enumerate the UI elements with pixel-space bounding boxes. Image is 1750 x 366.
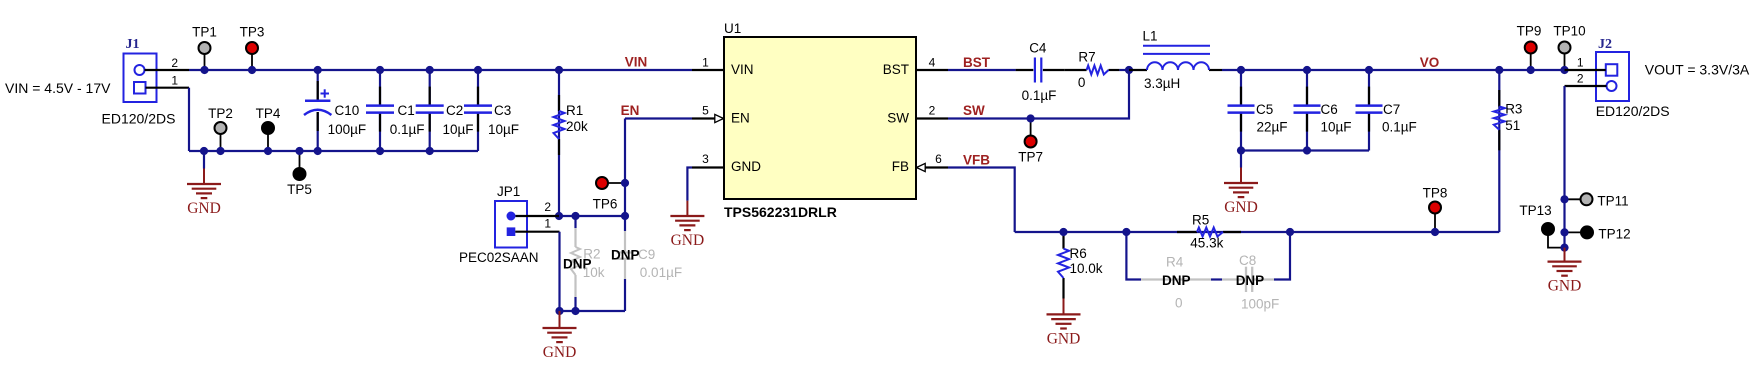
junction C5 bottom: [1237, 146, 1245, 154]
svg-text:VFB: VFB: [963, 153, 990, 168]
svg-text:10µF: 10µF: [443, 122, 474, 137]
svg-text:TP2: TP2: [208, 106, 233, 121]
wire output caps ground row: [1241, 149, 1369, 151]
svg-text:C1: C1: [398, 103, 415, 118]
wire EN ground row: [559, 310, 625, 312]
junction TP9: [1527, 66, 1535, 74]
svg-text:VIN = 4.5V - 17V: VIN = 4.5V - 17V: [5, 80, 111, 96]
junction TP13: [1560, 244, 1568, 252]
svg-text:0: 0: [1175, 296, 1183, 311]
testpoint TP6: [593, 177, 625, 212]
wire DNP branch middle: [1211, 278, 1222, 280]
svg-text:R4: R4: [1166, 255, 1184, 270]
svg-text:4: 4: [929, 56, 936, 70]
svg-text:C5: C5: [1256, 102, 1273, 117]
testpoint TP5: [287, 151, 312, 197]
svg-text:BST: BST: [963, 55, 991, 70]
pin 3 GND: [692, 152, 724, 168]
svg-text:SW: SW: [887, 111, 909, 126]
svg-text:GND: GND: [1548, 278, 1582, 295]
svg-text:C3: C3: [494, 103, 511, 118]
ground output caps: [1224, 151, 1258, 217]
svg-text:GND: GND: [1224, 199, 1258, 216]
svg-text:EN: EN: [731, 111, 750, 126]
svg-text:DNP: DNP: [1162, 273, 1191, 288]
svg-text:JP1: JP1: [497, 184, 520, 199]
resistor R2 (DNP): [563, 216, 605, 311]
svg-text:ED120/2DS: ED120/2DS: [1596, 103, 1670, 119]
capacitor C1: [366, 70, 424, 151]
capacitor C3: [464, 70, 519, 151]
junction C5 top: [1237, 66, 1245, 74]
testpoint TP10: [1553, 24, 1585, 71]
junction C3 top: [474, 66, 482, 74]
capacitor C2: [416, 70, 474, 151]
junction C9 top: [621, 212, 629, 220]
svg-text:0.1µF: 0.1µF: [1022, 88, 1057, 103]
svg-text:VIN: VIN: [731, 62, 754, 77]
junction C1 bottom: [376, 147, 384, 155]
svg-text:10µF: 10µF: [488, 122, 519, 137]
resistor R4 (DNP): [1141, 255, 1211, 311]
svg-text:J1: J1: [126, 37, 140, 52]
capacitor C8 (DNP): [1222, 253, 1279, 312]
svg-text:TPS562231DRLR: TPS562231DRLR: [724, 204, 837, 220]
svg-text:100pF: 100pF: [1241, 297, 1279, 312]
svg-text:R6: R6: [1070, 246, 1087, 261]
svg-text:2: 2: [544, 200, 551, 214]
svg-text:PEC02SAAN: PEC02SAAN: [459, 250, 539, 265]
resistor R3: [1494, 70, 1523, 232]
svg-text:VO: VO: [1420, 55, 1440, 70]
op-amp U1 TPS562231DRLR body: [724, 21, 916, 220]
svg-text:VIN: VIN: [625, 55, 648, 70]
svg-text:GND: GND: [671, 232, 705, 249]
svg-text:TP4: TP4: [256, 106, 281, 121]
junction C2 top: [426, 66, 434, 74]
testpoint TP12: [1565, 226, 1631, 241]
wire VO rail: [1222, 69, 1565, 71]
wire VIN top rail: [189, 69, 692, 71]
testpoint TP9: [1517, 24, 1542, 71]
wire EN vertical: [624, 119, 626, 217]
svg-text:51: 51: [1505, 118, 1520, 133]
svg-text:C2: C2: [446, 103, 463, 118]
capacitor C10: [304, 70, 366, 151]
svg-text:10µF: 10µF: [1321, 120, 1352, 135]
svg-text:TP12: TP12: [1598, 227, 1630, 242]
junction C6 bottom: [1303, 146, 1311, 154]
svg-text:VOUT = 3.3V/3A: VOUT = 3.3V/3A: [1645, 62, 1750, 78]
svg-text:TP3: TP3: [240, 25, 265, 40]
pin 6 FB: [916, 152, 948, 172]
junction R5 left: [1122, 228, 1130, 236]
wire U1 GND: [687, 168, 692, 201]
ground EN divider: [559, 311, 561, 328]
wire JP1 pin1 to ground row: [558, 232, 560, 311]
testpoint TP7: [1018, 119, 1043, 165]
svg-text:C10: C10: [335, 103, 360, 118]
svg-text:1: 1: [702, 56, 709, 70]
svg-text:R1: R1: [566, 103, 583, 118]
junction ground tap: [200, 147, 208, 155]
wire J1 pin1 to ground rail: [188, 88, 190, 151]
testpoint TP2: [208, 106, 233, 151]
svg-text:C4: C4: [1029, 41, 1047, 56]
junction TP5: [295, 147, 303, 155]
junction TP11: [1560, 195, 1568, 203]
svg-text:DNP: DNP: [1236, 273, 1265, 288]
wire SW: [948, 70, 1129, 119]
svg-text:2: 2: [171, 56, 178, 70]
junction C6 top: [1303, 66, 1311, 74]
junction TP3: [248, 66, 256, 74]
inductor L1: [1129, 29, 1222, 92]
junction TP6: [621, 179, 629, 187]
resistor R1: [554, 70, 589, 216]
pin 4 BST: [916, 56, 948, 71]
wire BST: [948, 69, 1016, 71]
wire EN: [625, 117, 692, 119]
svg-text:6: 6: [935, 152, 942, 166]
svg-text:C6: C6: [1321, 102, 1338, 117]
svg-text:20k: 20k: [566, 119, 588, 134]
svg-text:22µF: 22µF: [1257, 120, 1288, 135]
wire EN row: [559, 215, 625, 217]
testpoint TP8: [1423, 186, 1448, 233]
jumper JP1: [459, 184, 560, 265]
junction TP4: [264, 147, 272, 155]
junction TP10: [1560, 66, 1568, 74]
junction C10 top: [314, 66, 322, 74]
svg-text:5: 5: [702, 104, 709, 118]
junction TP2: [216, 147, 224, 155]
svg-text:3.3µH: 3.3µH: [1144, 76, 1180, 91]
svg-text:TP5: TP5: [287, 182, 312, 197]
junction TP1: [200, 66, 208, 74]
svg-text:R5: R5: [1192, 213, 1209, 228]
capacitor C5: [1228, 70, 1288, 151]
svg-text:ED120/2DS: ED120/2DS: [102, 111, 176, 127]
svg-text:100µF: 100µF: [328, 122, 367, 137]
ground input: [187, 151, 221, 217]
svg-text:3: 3: [702, 152, 709, 166]
svg-text:TP13: TP13: [1519, 203, 1551, 218]
svg-text:0: 0: [1078, 75, 1086, 90]
svg-text:1: 1: [544, 217, 551, 231]
svg-text:U1: U1: [724, 21, 741, 36]
wire FB row: [1015, 231, 1500, 233]
testpoint TP11: [1565, 193, 1629, 208]
svg-text:1: 1: [171, 74, 178, 88]
testpoint TP4: [256, 106, 281, 151]
junction EN row left: [555, 212, 563, 220]
svg-text:GND: GND: [187, 200, 221, 217]
junction C7 top: [1365, 66, 1373, 74]
capacitor C7: [1356, 70, 1417, 151]
junction BST/SW node: [1125, 66, 1133, 74]
wire input ground rail: [189, 150, 478, 152]
resistor R7: [1065, 50, 1129, 91]
svg-text:C7: C7: [1383, 102, 1400, 117]
testpoint TP13: [1519, 203, 1564, 248]
junction TP12: [1560, 228, 1568, 236]
connector J2: [1565, 37, 1670, 119]
svg-text:TP10: TP10: [1553, 24, 1585, 39]
pin 5 EN: [692, 104, 724, 123]
resistor R6: [1058, 232, 1103, 299]
svg-text:45.3k: 45.3k: [1190, 236, 1223, 251]
pin 1 VIN: [692, 56, 724, 71]
junction R2 top: [571, 212, 579, 220]
wire DNP branch right: [1274, 232, 1290, 280]
svg-text:TP1: TP1: [192, 25, 217, 40]
capacitor C6: [1294, 70, 1352, 151]
testpoint TP1: [192, 25, 217, 71]
capacitor C9 (DNP): [611, 216, 682, 311]
svg-text:2: 2: [929, 104, 936, 118]
svg-text:BST: BST: [883, 62, 909, 77]
junction TP7: [1027, 114, 1035, 122]
svg-text:TP7: TP7: [1018, 150, 1043, 165]
wire J2 pin2 ground drop: [1563, 86, 1565, 248]
junction R1 top: [555, 66, 563, 74]
svg-text:GND: GND: [1047, 330, 1081, 347]
junction C2 bottom: [426, 147, 434, 155]
connector J1: [102, 37, 190, 127]
svg-text:TP6: TP6: [593, 197, 618, 212]
svg-text:0.1µF: 0.1µF: [390, 122, 425, 137]
svg-text:L1: L1: [1143, 29, 1158, 44]
svg-text:10.0k: 10.0k: [1070, 261, 1103, 276]
svg-text:GND: GND: [543, 344, 577, 361]
junction R2 bottom: [571, 307, 579, 315]
wire DNP branch left: [1126, 232, 1141, 280]
junction ground row left: [555, 307, 563, 315]
svg-text:EN: EN: [621, 103, 640, 118]
svg-text:2: 2: [1577, 72, 1584, 86]
junction R6 top: [1059, 228, 1067, 236]
ground U1: [686, 201, 688, 216]
junction TP8: [1431, 228, 1439, 236]
pin 2 SW: [916, 104, 948, 119]
svg-text:TP8: TP8: [1423, 186, 1448, 201]
junction C1 top: [376, 66, 384, 74]
wire VFB: [948, 168, 1015, 233]
svg-text:R7: R7: [1078, 50, 1095, 65]
svg-text:DNP: DNP: [563, 257, 592, 272]
svg-text:GND: GND: [731, 159, 761, 174]
svg-text:SW: SW: [963, 103, 985, 118]
svg-text:0.1µF: 0.1µF: [1382, 120, 1417, 135]
svg-text:J2: J2: [1598, 37, 1612, 52]
svg-text:0.01µF: 0.01µF: [640, 265, 682, 280]
ground R6: [1063, 299, 1065, 315]
ground output: [1564, 248, 1566, 262]
testpoint TP3: [240, 25, 265, 71]
svg-text:R3: R3: [1505, 102, 1522, 117]
svg-text:TP9: TP9: [1517, 24, 1542, 39]
junction R5 right: [1286, 228, 1294, 236]
svg-text:1: 1: [1577, 56, 1584, 70]
resistor R5: [1177, 213, 1241, 251]
svg-text:TP11: TP11: [1597, 194, 1628, 209]
junction C10 bottom: [314, 147, 322, 155]
svg-text:C9: C9: [638, 247, 655, 262]
svg-text:C8: C8: [1239, 253, 1256, 268]
capacitor C4: [1016, 41, 1065, 104]
svg-text:FB: FB: [892, 159, 909, 174]
svg-text:DNP: DNP: [611, 248, 640, 263]
junction R3 top: [1495, 66, 1503, 74]
